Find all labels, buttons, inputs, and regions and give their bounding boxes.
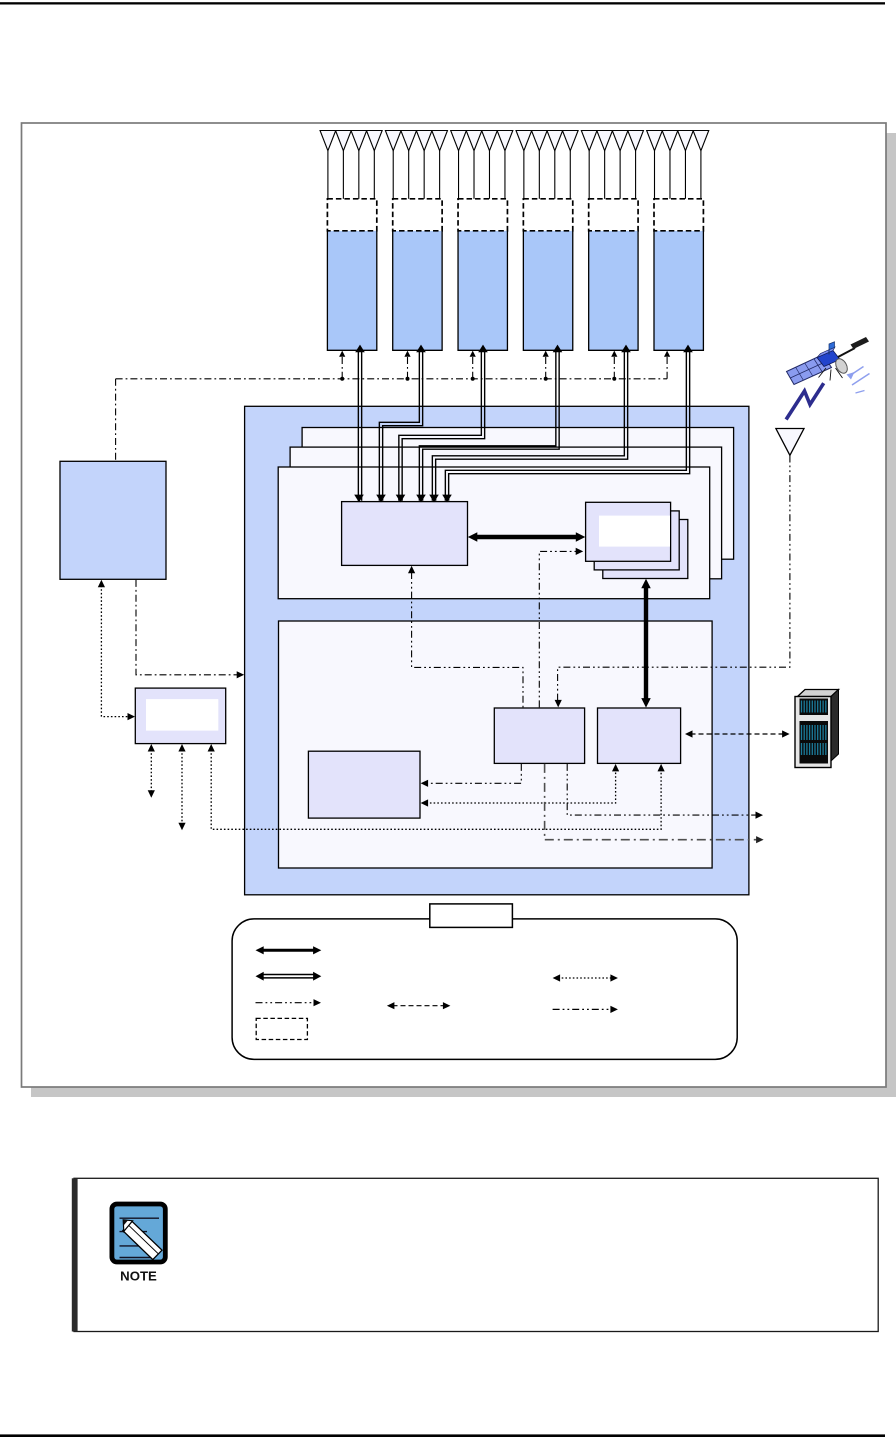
svg-text:NOTE: NOTE <box>120 1269 157 1284</box>
